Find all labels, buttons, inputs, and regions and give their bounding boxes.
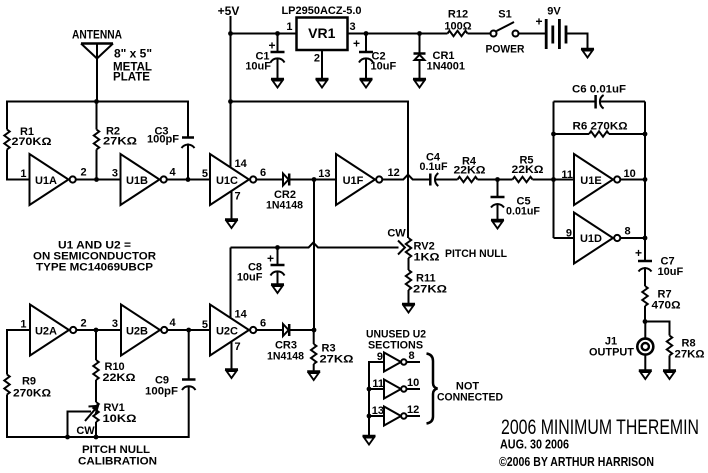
wire to J1 bbox=[644, 322, 646, 339]
ground VR1 bbox=[316, 79, 329, 88]
wire battery negative bbox=[567, 34, 588, 49]
wire U1A pin1 bbox=[7, 179, 30, 181]
node mixer input junction bbox=[312, 177, 317, 182]
svg-text:1KΩ: 1KΩ bbox=[414, 252, 440, 264]
svg-text:8: 8 bbox=[409, 350, 415, 362]
wire +5V bus to RV2 drop bbox=[231, 102, 409, 239]
svg-text:7: 7 bbox=[235, 191, 241, 203]
wire U1C pin14 bbox=[230, 102, 232, 168]
ground J1 bbox=[639, 371, 652, 380]
svg-text:U1E: U1E bbox=[580, 175, 601, 187]
wire U2A out to U2B in bbox=[77, 329, 122, 331]
node C8 junction bbox=[275, 245, 280, 250]
battery BT1 9V bbox=[535, 6, 566, 50]
potentiometer RV2 bbox=[387, 228, 439, 264]
capacitor C3 bbox=[147, 101, 195, 180]
connector J1 output jack bbox=[589, 336, 653, 371]
wire U1C pin7 bbox=[231, 191, 233, 219]
svg-text:27KΩ: 27KΩ bbox=[675, 349, 705, 361]
capacitor C4 bbox=[420, 152, 458, 187]
OSC2-SECTION bbox=[4, 228, 507, 468]
POWER-SECTION bbox=[218, 4, 594, 102]
svg-text:OUTPUT: OUTPUT bbox=[589, 347, 634, 359]
resistor R4 bbox=[454, 156, 513, 183]
svg-text:27KΩ: 27KΩ bbox=[413, 284, 447, 296]
node U1E out junction bbox=[643, 177, 648, 182]
wire U2F input bbox=[369, 415, 384, 417]
wire output right vertical bbox=[644, 102, 646, 261]
svg-text:12: 12 bbox=[388, 167, 400, 179]
wire U1D out bbox=[621, 237, 646, 239]
op-amp U1D inverter bbox=[574, 213, 620, 264]
svg-text:4: 4 bbox=[170, 167, 177, 179]
svg-text:27KΩ: 27KΩ bbox=[103, 136, 137, 148]
wire CR2 to U1F pin13 bbox=[289, 179, 336, 181]
svg-text:3: 3 bbox=[350, 21, 356, 33]
svg-text:PITCH NULL: PITCH NULL bbox=[82, 444, 150, 456]
svg-text:1: 1 bbox=[286, 21, 292, 33]
ground C5 bbox=[491, 220, 504, 229]
svg-text:+: + bbox=[268, 39, 275, 53]
wire S1 to battery bbox=[519, 33, 546, 35]
svg-text:U2C: U2C bbox=[216, 326, 238, 338]
svg-text:2: 2 bbox=[81, 167, 87, 179]
wire U1C out to CR2 bbox=[257, 179, 283, 181]
ground C8 bbox=[271, 285, 284, 294]
resistor R8 bbox=[667, 336, 705, 371]
svg-text:2006 MINIMUM THEREMIN: 2006 MINIMUM THEREMIN bbox=[501, 416, 699, 439]
svg-text:+: + bbox=[535, 15, 542, 29]
node +5V bus junction bbox=[228, 99, 233, 104]
MIXER-SECTION bbox=[257, 152, 574, 331]
svg-text:4: 4 bbox=[170, 317, 177, 329]
wire unused inputs vertical bbox=[369, 362, 384, 436]
svg-text:R9: R9 bbox=[22, 376, 36, 388]
wire U2B out to U2C in bbox=[168, 329, 211, 331]
svg-text:U1A: U1A bbox=[35, 175, 57, 187]
svg-text:100pF: 100pF bbox=[147, 134, 179, 146]
svg-text:22KΩ: 22KΩ bbox=[454, 165, 486, 177]
node C5 junction bbox=[495, 177, 500, 182]
svg-text:AUG. 30 2006: AUG. 30 2006 bbox=[500, 438, 569, 452]
resistor R2 bbox=[94, 102, 137, 180]
diode CR1 bbox=[414, 31, 466, 78]
ground CR1 bbox=[413, 79, 426, 88]
svg-text:5: 5 bbox=[202, 168, 208, 180]
brace not connected bbox=[427, 354, 438, 424]
node antenna junction bbox=[94, 99, 99, 104]
wire U2E input bbox=[369, 388, 384, 390]
svg-text:14: 14 bbox=[235, 309, 248, 321]
capacitor C2 bbox=[353, 31, 396, 78]
node CR3 junction bbox=[312, 328, 317, 333]
node U2E input junction bbox=[367, 387, 372, 392]
svg-text:1N4148: 1N4148 bbox=[266, 200, 303, 212]
note U1 U2 type bbox=[33, 240, 156, 274]
resistor R3 bbox=[311, 330, 354, 371]
svg-text:S1: S1 bbox=[498, 9, 511, 21]
UNUSED-SECTION bbox=[363, 329, 504, 445]
wire C8 bus with hop over mixer vertical bbox=[231, 243, 399, 248]
svg-text:U1D: U1D bbox=[580, 233, 602, 245]
node junction +5V rail bbox=[228, 31, 233, 36]
svg-text:CALIBRATION: CALIBRATION bbox=[78, 456, 157, 468]
op-amp U1B inverter bbox=[121, 154, 167, 205]
svg-text:10uF: 10uF bbox=[245, 61, 271, 73]
svg-text:ANTENNA: ANTENNA bbox=[72, 28, 122, 42]
wire VR1 pin3 rail bbox=[348, 33, 448, 35]
switch S1 bbox=[486, 9, 525, 56]
wire +5V vertical bbox=[230, 16, 232, 102]
node output junction bbox=[643, 319, 648, 324]
wire rail VR1 pin1 to C1 and +5V bbox=[231, 33, 297, 35]
resistor R10 bbox=[93, 330, 135, 402]
svg-text:12: 12 bbox=[407, 404, 419, 416]
svg-text:VR1: VR1 bbox=[308, 25, 335, 41]
svg-text:1N4001: 1N4001 bbox=[427, 61, 466, 73]
node C9 top junction bbox=[186, 328, 191, 333]
svg-text:11: 11 bbox=[372, 378, 384, 390]
wire U2C pin14 drop bbox=[230, 248, 232, 318]
wire mixer junction vertical bbox=[313, 180, 315, 331]
ground C1 bbox=[271, 79, 284, 88]
svg-text:C6 0.01uF: C6 0.01uF bbox=[572, 84, 626, 96]
svg-text:7: 7 bbox=[235, 341, 241, 353]
svg-text:+5V: +5V bbox=[218, 4, 240, 18]
svg-text:470Ω: 470Ω bbox=[652, 300, 681, 312]
diode CR2 bbox=[266, 174, 303, 212]
op-amp U2F inverter small bbox=[384, 407, 407, 426]
capacitor C8 bbox=[237, 248, 285, 285]
svg-text:U1F: U1F bbox=[343, 175, 364, 187]
wire RV1 wiper bbox=[68, 412, 92, 439]
node RV1 wiper bus junction bbox=[65, 435, 70, 440]
svg-text:+: + bbox=[267, 252, 274, 266]
svg-text:U1C: U1C bbox=[216, 175, 238, 187]
ground R11 bbox=[402, 304, 415, 313]
node U2F input junction bbox=[367, 414, 372, 419]
svg-text:8: 8 bbox=[625, 226, 631, 238]
wire U2E out bbox=[407, 388, 421, 390]
svg-text:3: 3 bbox=[112, 318, 118, 330]
node U1D out junction bbox=[643, 236, 648, 241]
svg-text:3: 3 bbox=[112, 168, 118, 180]
op-amp U2C inverter bbox=[210, 305, 256, 356]
svg-text:+: + bbox=[635, 246, 642, 260]
svg-text:POWER: POWER bbox=[486, 44, 525, 56]
svg-text:U2A: U2A bbox=[35, 326, 57, 338]
svg-text:10KΩ: 10KΩ bbox=[103, 413, 137, 425]
op-amp U2A inverter bbox=[30, 305, 76, 356]
svg-text:10uF: 10uF bbox=[371, 61, 397, 73]
capacitor C9 bbox=[145, 330, 196, 438]
svg-text:PITCH NULL: PITCH NULL bbox=[445, 248, 507, 260]
wire U2A pin1 bbox=[7, 329, 30, 331]
svg-text:9: 9 bbox=[377, 351, 383, 363]
op-amp U1F inverter bbox=[336, 154, 382, 205]
svg-text:8" x 5": 8" x 5" bbox=[114, 47, 152, 61]
ground battery bbox=[581, 49, 594, 58]
wire U1D pin9 bbox=[554, 237, 575, 239]
wire U1E out bbox=[621, 179, 646, 181]
ground U2C pin7 bbox=[225, 370, 238, 379]
wire U2D out bbox=[407, 361, 421, 363]
wire U1B out to U1C in bbox=[167, 179, 210, 181]
diode CR3 bbox=[267, 324, 304, 363]
wire U1F out with hop over RV2 drop bbox=[383, 175, 430, 180]
svg-text:9: 9 bbox=[566, 228, 572, 240]
svg-text:CW: CW bbox=[76, 425, 95, 437]
ground R3 bbox=[307, 372, 320, 381]
resistor R5 bbox=[512, 155, 575, 183]
op-amp U2E inverter small bbox=[384, 380, 407, 399]
svg-text:CW: CW bbox=[387, 228, 406, 240]
wire feedback box left vertical bbox=[553, 102, 555, 239]
svg-text:U2B: U2B bbox=[126, 326, 148, 338]
svg-text:13: 13 bbox=[318, 168, 330, 180]
svg-text:PLATE: PLATE bbox=[113, 70, 150, 84]
svg-text:2: 2 bbox=[81, 318, 87, 330]
ground unused inputs bbox=[363, 436, 376, 445]
svg-text:100pF: 100pF bbox=[145, 386, 178, 398]
svg-text:©2006 BY ARTHUR HARRISON: ©2006 BY ARTHUR HARRISON bbox=[499, 455, 654, 469]
op-amp U1A inverter bbox=[30, 154, 76, 205]
op-amp VR1 regulator box bbox=[281, 5, 361, 65]
op-amp U2B inverter bbox=[121, 305, 167, 356]
wire U2C out to CR3 bbox=[257, 329, 283, 331]
svg-text:TYPE MC14069UBCP: TYPE MC14069UBCP bbox=[36, 262, 153, 274]
resistor R7 bbox=[642, 286, 680, 322]
svg-text:0.1uF: 0.1uF bbox=[420, 161, 448, 173]
svg-text:6: 6 bbox=[260, 318, 266, 330]
wire CR3 to junction bbox=[289, 329, 314, 331]
svg-text:10: 10 bbox=[407, 377, 419, 389]
resistor R1 bbox=[4, 101, 51, 181]
svg-text:R12: R12 bbox=[448, 9, 468, 21]
op-amp U2D inverter small bbox=[384, 353, 407, 372]
svg-text:10uF: 10uF bbox=[658, 266, 684, 278]
svg-text:0.01uF: 0.01uF bbox=[506, 206, 540, 218]
svg-text:+: + bbox=[353, 37, 360, 51]
svg-text:SECTIONS: SECTIONS bbox=[368, 340, 423, 352]
svg-text:5: 5 bbox=[202, 319, 208, 331]
svg-text:2: 2 bbox=[314, 53, 320, 65]
svg-text:6: 6 bbox=[260, 167, 266, 179]
OSC1-SECTION bbox=[4, 28, 408, 239]
svg-text:1: 1 bbox=[20, 319, 26, 331]
wire feedback bus top bbox=[7, 101, 188, 103]
resistor R9 bbox=[4, 329, 51, 438]
wire U2F out bbox=[407, 415, 421, 417]
resistor R6 bbox=[551, 121, 647, 137]
svg-text:9V: 9V bbox=[547, 6, 561, 18]
op-amp U1E inverter bbox=[574, 154, 620, 205]
antenna bbox=[72, 28, 152, 102]
node C3 bottom junction bbox=[186, 177, 191, 182]
svg-text:13: 13 bbox=[372, 405, 384, 417]
svg-text:LP2950ACZ-5.0: LP2950ACZ-5.0 bbox=[281, 5, 361, 17]
ground U1C pin7 bbox=[225, 220, 238, 229]
wire U1A out to U1B in bbox=[76, 179, 121, 181]
node U1A output junction bbox=[94, 177, 99, 182]
wire U2C pin7 bbox=[231, 342, 233, 370]
op-amp U1C inverter bbox=[210, 154, 256, 205]
AMP-SECTION bbox=[551, 84, 705, 380]
ground C2 bbox=[360, 79, 373, 88]
svg-text:27KΩ: 27KΩ bbox=[320, 354, 354, 366]
svg-text:10uF: 10uF bbox=[237, 272, 263, 284]
svg-text:22KΩ: 22KΩ bbox=[512, 164, 544, 176]
svg-text:CONNECTED: CONNECTED bbox=[437, 392, 503, 404]
svg-text:R6 270KΩ: R6 270KΩ bbox=[573, 121, 628, 133]
wire calibration bottom bus bbox=[6, 436, 189, 438]
capacitor C5 bbox=[491, 180, 541, 220]
svg-text:100Ω: 100Ω bbox=[444, 21, 471, 33]
node U2A output junction bbox=[94, 328, 99, 333]
wire to R8 bbox=[645, 322, 670, 336]
node R5 out junction bbox=[551, 177, 556, 182]
node RV1 bottom bus junction bbox=[94, 435, 99, 440]
capacitor C7 bbox=[635, 246, 683, 286]
svg-text:270KΩ: 270KΩ bbox=[13, 388, 51, 400]
svg-text:1: 1 bbox=[20, 168, 26, 180]
resistor R12 bbox=[444, 9, 490, 37]
capacitor C6 bbox=[554, 84, 646, 109]
svg-text:1N4148: 1N4148 bbox=[267, 351, 304, 363]
resistor R11 bbox=[406, 258, 447, 304]
svg-text:270KΩ: 270KΩ bbox=[12, 136, 52, 148]
capacitor C1 bbox=[245, 31, 284, 78]
ground R8 bbox=[663, 371, 676, 380]
wire VR1 pin2 bbox=[321, 50, 323, 79]
svg-text:10: 10 bbox=[624, 168, 636, 180]
svg-text:U1B: U1B bbox=[126, 175, 148, 187]
potentiometer RV1 bbox=[76, 402, 136, 438]
TEXT-SECTION bbox=[499, 416, 699, 469]
svg-text:14: 14 bbox=[235, 158, 248, 170]
svg-text:11: 11 bbox=[561, 169, 573, 181]
svg-text:22KΩ: 22KΩ bbox=[103, 372, 136, 384]
